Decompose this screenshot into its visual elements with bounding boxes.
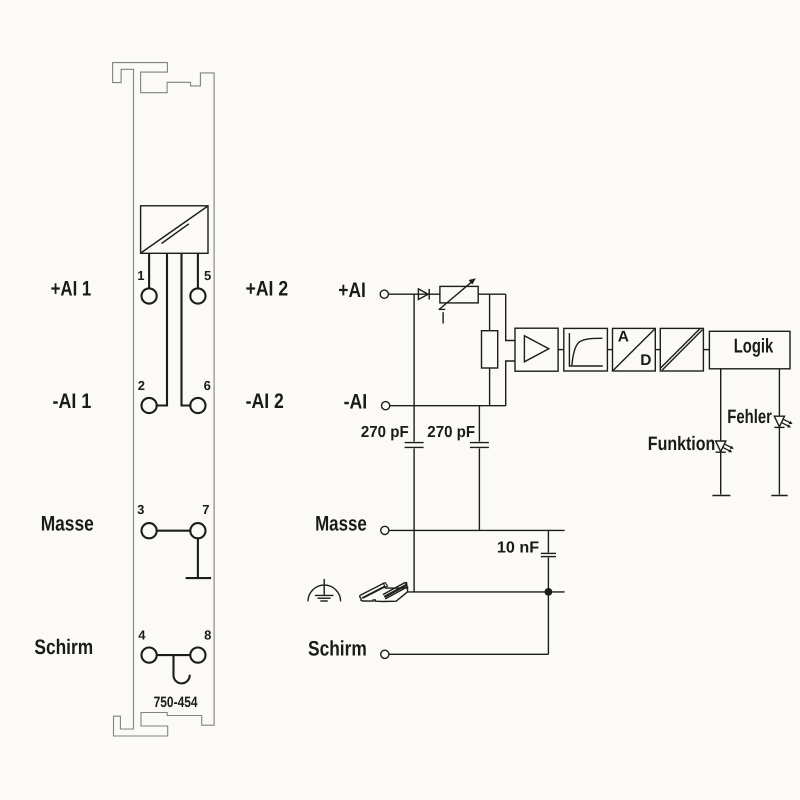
- capacitor C2 270pF plates: [470, 442, 489, 444]
- wire +AI main: [389, 293, 506, 295]
- terminal 1: [142, 288, 157, 303]
- wire resistor bottom leg: [489, 368, 491, 406]
- DIN rail icon: [360, 582, 408, 602]
- LED Funktion emission arrows: [723, 444, 734, 452]
- svg-text:+AI 1: +AI 1: [51, 278, 92, 301]
- filter curve: [572, 338, 603, 365]
- svg-text:8: 8: [204, 628, 211, 643]
- wire capacitor C1 branch from +AI: [413, 294, 415, 441]
- svg-text:1: 1: [137, 268, 144, 283]
- wire C1 bottom to earth rail: [413, 448, 415, 592]
- svg-text:-AI 2: -AI 2: [246, 390, 284, 413]
- svg-text:2: 2: [138, 378, 145, 393]
- ground bar Funktion: [712, 495, 730, 497]
- svg-text:+AI: +AI: [338, 279, 366, 302]
- wire box to terminal 1: [148, 253, 150, 288]
- terminal 8: [190, 648, 205, 663]
- wire Masse main: [389, 529, 564, 531]
- filter box: [564, 328, 608, 371]
- A/D diagonal: [613, 329, 654, 370]
- isolator diagonal 1: [662, 330, 702, 370]
- svg-text:3: 3: [137, 502, 144, 517]
- svg-text:7: 7: [202, 502, 209, 517]
- svg-text:+AI 2: +AI 2: [246, 278, 289, 301]
- transformer U1 main diagonal: [142, 207, 208, 253]
- LED Fehler: [774, 416, 784, 427]
- svg-text:Fehler: Fehler: [727, 406, 772, 428]
- svg-text:Schirm: Schirm: [308, 637, 367, 660]
- svg-text:D: D: [640, 352, 651, 369]
- terminal 5: [190, 288, 205, 303]
- svg-text:Schirm: Schirm: [34, 636, 93, 659]
- svg-text:Funktion: Funktion: [648, 433, 716, 455]
- junction node dot: [545, 588, 553, 596]
- wire Logik to Funktion LED: [720, 369, 722, 441]
- svg-text:750-454: 750-454: [154, 694, 199, 711]
- terminal 6: [190, 398, 205, 413]
- wire +AI corner down to amp input: [506, 294, 515, 340]
- node -AI terminal circle: [382, 402, 390, 410]
- svg-text:4: 4: [138, 628, 146, 643]
- LED Fehler emission arrows: [782, 419, 793, 427]
- svg-text:-AI 1: -AI 1: [53, 390, 92, 413]
- terminal 4: [142, 648, 157, 663]
- module outline 750-454 housing: [113, 63, 215, 736]
- wire C3 bottom to junction: [547, 558, 549, 592]
- arrow tail foot tick: [439, 308, 446, 310]
- wire -AI main: [390, 405, 506, 407]
- wire capacitor C2 branch from -AI: [478, 406, 480, 442]
- wire AD to isolator stub: [655, 349, 660, 351]
- wire Logik to Fehler LED: [778, 369, 780, 416]
- wire link terminal 3 to 7: [157, 530, 190, 532]
- wire Schirm vertical to junction: [547, 592, 549, 654]
- isolator diagonal 2: [660, 328, 700, 368]
- svg-text:Masse: Masse: [41, 513, 94, 536]
- wire capacitor C3 top leg: [547, 530, 549, 552]
- Logik box: [709, 331, 790, 369]
- adjustable arrow through box: [439, 282, 472, 310]
- terminal 3: [142, 523, 157, 538]
- wire resistor top leg: [489, 294, 491, 331]
- wire link terminal 4 to 8: [157, 654, 190, 656]
- wire C2 bottom to Masse: [478, 448, 480, 530]
- filter axes: [569, 333, 602, 366]
- node Masse terminal circle: [381, 526, 389, 534]
- svg-text:Masse: Masse: [315, 512, 367, 535]
- diode D1 cathode bar: [428, 289, 430, 300]
- shield hook at terminals 4-8: [174, 655, 190, 683]
- capacitor C1 270pF plates: [405, 442, 424, 444]
- functional earth symbol: [308, 579, 341, 602]
- terminal 2: [142, 398, 157, 413]
- wire isolator to logic stub: [703, 349, 709, 351]
- adjustable current source box: [440, 286, 478, 303]
- svg-text:-AI: -AI: [344, 390, 368, 413]
- ground bar Fehler: [771, 495, 787, 497]
- wire box to terminal 2: [157, 253, 167, 405]
- wire filter to AD stub: [607, 349, 612, 351]
- svg-text:A: A: [618, 329, 629, 346]
- node Schirm terminal circle: [381, 650, 389, 658]
- resistor R1 shunt: [482, 331, 498, 368]
- wire Funktion LED to ground: [720, 452, 722, 494]
- wire box to terminal 6: [182, 253, 191, 405]
- A/D converter box: [613, 328, 656, 371]
- LED Funktion: [716, 441, 726, 452]
- arrow head: [469, 278, 476, 284]
- amplifier box: [515, 328, 558, 371]
- wire Fehler LED to ground: [778, 427, 780, 494]
- diode D1: [418, 289, 428, 300]
- capacitor C3 10nF plates: [541, 552, 556, 554]
- node +AI terminal circle: [380, 290, 388, 298]
- wire earth rail horizontal: [407, 591, 564, 593]
- svg-text:10 nF: 10 nF: [497, 540, 539, 557]
- svg-text:6: 6: [204, 378, 211, 393]
- transformer U1 (isolation converter box): [141, 206, 208, 254]
- isolator box: [660, 328, 703, 371]
- svg-text:Logik: Logik: [734, 335, 774, 357]
- terminal 7: [190, 523, 205, 538]
- svg-text:5: 5: [204, 268, 211, 283]
- current I mark: [442, 312, 444, 323]
- svg-text:270 pF: 270 pF: [427, 424, 475, 441]
- wire amp lower input stub: [506, 361, 515, 406]
- wire terminal 7 to chassis bar: [197, 539, 199, 579]
- transformer U1 second diagonal: [162, 224, 189, 244]
- wire box to terminal 5: [197, 253, 199, 288]
- chassis bar under terminal 7: [186, 577, 212, 579]
- svg-text:270 pF: 270 pF: [361, 424, 409, 441]
- wire amp to filter stub: [558, 349, 564, 351]
- amplifier triangle: [524, 336, 548, 362]
- wire Schirm main: [389, 653, 548, 655]
